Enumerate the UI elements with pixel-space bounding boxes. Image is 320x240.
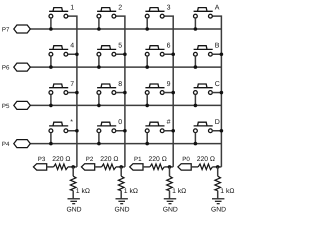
junction: node column 1 / 1kΩ pulldown [71, 165, 75, 169]
wire: button "6" right terminal to column 3 [164, 53, 173, 55]
svg-text:P2: P2 [86, 156, 94, 163]
resistor 220Ω (series, column 3) [150, 164, 164, 170]
junction: button "7" left terminal on row bus [49, 104, 53, 108]
port P6 (hexagonal pin symbol) [14, 63, 31, 71]
junction: button "6" right terminal on column 3 [171, 52, 175, 56]
wire row P4 (horizontal row bus) [30, 143, 221, 145]
pushbutton "A" (normally-open key switch) [194, 8, 213, 18]
junction: button "5" right terminal on column 2 [123, 52, 127, 56]
svg-text:1 kΩ: 1 kΩ [172, 188, 186, 195]
wire: 1kΩ resistor to ground [120, 191, 122, 199]
pushbutton "#" (normally-open key switch) [145, 122, 164, 132]
wire: button "0" right terminal to column 2 [116, 130, 125, 132]
wire: node to 1kΩ resistor [120, 167, 122, 176]
svg-text:1 kΩ: 1 kΩ [124, 188, 138, 195]
pushbutton "B" (normally-open key switch) [194, 46, 213, 56]
junction: button "#" right terminal on column 3 [171, 129, 175, 133]
resistor 220Ω (series, column 1) [54, 164, 68, 170]
pushbutton "*" (normally-open key switch) [49, 122, 68, 132]
pushbutton "9" (normally-open key switch) [145, 84, 164, 94]
wire column 2 (from button "2" right terminal down to resistor node) [116, 16, 125, 167]
svg-text:8: 8 [118, 81, 122, 88]
junction: button "0" right terminal on column 2 [123, 129, 127, 133]
junction: button "8" left terminal on row bus [97, 104, 101, 108]
svg-text:GND: GND [66, 206, 81, 213]
junction: button "0" left terminal on row bus [97, 142, 101, 146]
wire: button "#" right terminal to column 3 [164, 130, 173, 132]
svg-text:5: 5 [118, 43, 122, 50]
resistor 1kΩ (pulldown, column 1) [70, 176, 76, 190]
junction: node column 3 / 1kΩ pulldown [168, 165, 172, 169]
wire: button "4" left terminal to row bus [50, 56, 52, 67]
svg-text:1 kΩ: 1 kΩ [220, 188, 234, 195]
ground (GND symbol, column 3) [164, 199, 176, 204]
pushbutton "0" (normally-open key switch) [97, 122, 116, 132]
wire row P5 (horizontal row bus) [30, 104, 221, 106]
port P3 (pin tag pointing left) [33, 164, 46, 170]
ground (GND symbol, column 4) [212, 199, 224, 204]
junction: node column 2 / 1kΩ pulldown [119, 165, 123, 169]
wire: 220Ω resistor to column node [116, 166, 125, 168]
ground (GND symbol, column 1) [68, 199, 80, 204]
junction: button "C" left terminal on row bus [194, 104, 198, 108]
svg-text:B: B [215, 43, 220, 50]
junction: button "4" left terminal on row bus [49, 65, 53, 69]
resistor 1kΩ (pulldown, column 4) [215, 176, 221, 190]
pushbutton "4" (normally-open key switch) [49, 46, 68, 56]
port P4 (hexagonal pin symbol) [14, 140, 31, 148]
svg-text:2: 2 [118, 5, 122, 12]
wire: button "*" right terminal to column 1 [68, 130, 77, 132]
svg-text:C: C [215, 81, 220, 88]
wire: button "C" right terminal to column 4 [212, 92, 221, 94]
resistor 1kΩ (pulldown, column 2) [118, 176, 124, 190]
svg-text:P5: P5 [2, 103, 10, 110]
svg-text:*: * [70, 119, 73, 126]
port P5 (hexagonal pin symbol) [14, 101, 31, 109]
pushbutton "2" (normally-open key switch) [97, 8, 116, 18]
wire: button "4" right terminal to column 1 [68, 53, 77, 55]
wire: button "B" right terminal to column 4 [212, 53, 221, 55]
svg-text:1 kΩ: 1 kΩ [76, 188, 90, 195]
svg-text:P7: P7 [2, 27, 10, 34]
wire: 1kΩ resistor to ground [217, 191, 219, 199]
pushbutton "7" (normally-open key switch) [49, 84, 68, 94]
wire: button "A" left terminal to row bus [194, 18, 196, 29]
svg-text:220 Ω: 220 Ω [149, 156, 167, 163]
wire: button "8" right terminal to column 2 [116, 92, 125, 94]
svg-text:P0: P0 [182, 156, 190, 163]
wire: button "5" right terminal to column 2 [116, 53, 125, 55]
svg-text:220 Ω: 220 Ω [100, 156, 118, 163]
wire: button "9" right terminal to column 3 [164, 92, 173, 94]
wire: button "5" left terminal to row bus [98, 56, 100, 67]
wire: button "D" right terminal to column 4 [212, 130, 221, 132]
svg-text:220 Ω: 220 Ω [52, 156, 70, 163]
wire: 1kΩ resistor to ground [169, 191, 171, 199]
wire column 4 (from button "A" right terminal down to resistor node) [212, 16, 221, 167]
port P0 (pin tag pointing left) [178, 164, 191, 170]
wire: button "7" left terminal to row bus [50, 95, 52, 106]
svg-text:D: D [215, 119, 220, 126]
pushbutton "8" (normally-open key switch) [97, 84, 116, 94]
svg-text:0: 0 [118, 119, 122, 126]
wire: button "D" left terminal to row bus [194, 133, 196, 144]
svg-text:A: A [215, 5, 220, 12]
wire: node to 1kΩ resistor [169, 167, 171, 176]
pushbutton "5" (normally-open key switch) [97, 46, 116, 56]
port P7 (hexagonal pin symbol) [14, 25, 31, 33]
wire: button "9" left terminal to row bus [146, 95, 148, 106]
wire row P6 (horizontal row bus) [30, 66, 221, 68]
wire: port P1 to 220Ω resistor [143, 166, 150, 168]
wire: button "C" left terminal to row bus [194, 95, 196, 106]
wire: button "8" left terminal to row bus [98, 95, 100, 106]
wire: button "#" left terminal to row bus [146, 133, 148, 144]
wire: port P2 to 220Ω resistor [95, 166, 102, 168]
svg-text:1: 1 [70, 5, 74, 12]
port P1 (pin tag pointing left) [130, 164, 143, 170]
junction: button "6" left terminal on row bus [145, 65, 149, 69]
wire: 1kΩ resistor to ground [72, 191, 74, 199]
svg-text:GND: GND [211, 206, 226, 213]
wire: button "*" left terminal to row bus [50, 133, 52, 144]
pushbutton "C" (normally-open key switch) [194, 84, 213, 94]
wire: node to 1kΩ resistor [217, 167, 219, 176]
junction: button "D" right terminal on column 4 [220, 129, 224, 133]
wire: 220Ω resistor to column node [164, 166, 173, 168]
resistor 220Ω (series, column 2) [102, 164, 116, 170]
junction: button "7" right terminal on column 1 [75, 91, 79, 95]
junction: button "#" left terminal on row bus [145, 142, 149, 146]
wire: button "B" left terminal to row bus [194, 56, 196, 67]
wire: button "0" left terminal to row bus [98, 133, 100, 144]
svg-text:#: # [167, 119, 171, 126]
resistor 220Ω (series, column 4) [198, 164, 212, 170]
junction: button "5" left terminal on row bus [97, 65, 101, 69]
svg-text:220 Ω: 220 Ω [197, 156, 215, 163]
junction: button "9" left terminal on row bus [145, 104, 149, 108]
junction: button "2" left terminal on row bus [97, 27, 101, 31]
ground (GND symbol, column 2) [116, 199, 128, 204]
wire: button "1" left terminal to row bus [50, 18, 52, 29]
wire: 220Ω resistor to column node [213, 166, 222, 168]
port P2 (pin tag pointing left) [81, 164, 94, 170]
wire: port P0 to 220Ω resistor [191, 166, 198, 168]
svg-text:9: 9 [167, 81, 171, 88]
pushbutton "1" (normally-open key switch) [49, 8, 68, 18]
junction: button "B" left terminal on row bus [194, 65, 198, 69]
wire column 3 (from button "3" right terminal down to resistor node) [164, 16, 173, 167]
junction: button "4" right terminal on column 1 [75, 52, 79, 56]
wire: button "6" left terminal to row bus [146, 56, 148, 67]
junction: node column 4 / 1kΩ pulldown [216, 165, 220, 169]
svg-text:P4: P4 [2, 141, 10, 148]
svg-text:P3: P3 [38, 156, 46, 163]
wire: button "2" left terminal to row bus [98, 18, 100, 29]
junction: button "B" right terminal on column 4 [220, 52, 224, 56]
junction: button "*" left terminal on row bus [49, 142, 53, 146]
wire row P7 (horizontal row bus) [30, 28, 221, 30]
wire: button "7" right terminal to column 1 [68, 92, 77, 94]
junction: button "D" left terminal on row bus [194, 142, 198, 146]
svg-text:P6: P6 [2, 65, 10, 72]
junction: button "1" left terminal on row bus [49, 27, 53, 31]
junction: button "9" right terminal on column 3 [171, 91, 175, 95]
svg-text:3: 3 [167, 5, 171, 12]
svg-text:GND: GND [163, 206, 178, 213]
pushbutton "6" (normally-open key switch) [145, 46, 164, 56]
resistor 1kΩ (pulldown, column 3) [167, 176, 173, 190]
svg-text:4: 4 [70, 43, 74, 50]
wire: 220Ω resistor to column node [68, 166, 77, 168]
svg-text:7: 7 [70, 81, 74, 88]
wire column 1 (from button "1" right terminal down to resistor node) [68, 16, 77, 167]
svg-text:6: 6 [167, 43, 171, 50]
wire: button "3" left terminal to row bus [146, 18, 148, 29]
junction: button "8" right terminal on column 2 [123, 91, 127, 95]
junction: button "A" left terminal on row bus [194, 27, 198, 31]
wire: node to 1kΩ resistor [72, 167, 74, 176]
junction: button "*" right terminal on column 1 [75, 129, 79, 133]
pushbutton "D" (normally-open key switch) [194, 122, 213, 132]
junction: button "C" right terminal on column 4 [220, 91, 224, 95]
svg-text:GND: GND [114, 206, 129, 213]
svg-text:P1: P1 [134, 156, 142, 163]
junction: button "3" left terminal on row bus [145, 27, 149, 31]
wire: port P3 to 220Ω resistor [47, 166, 54, 168]
pushbutton "3" (normally-open key switch) [145, 8, 164, 18]
